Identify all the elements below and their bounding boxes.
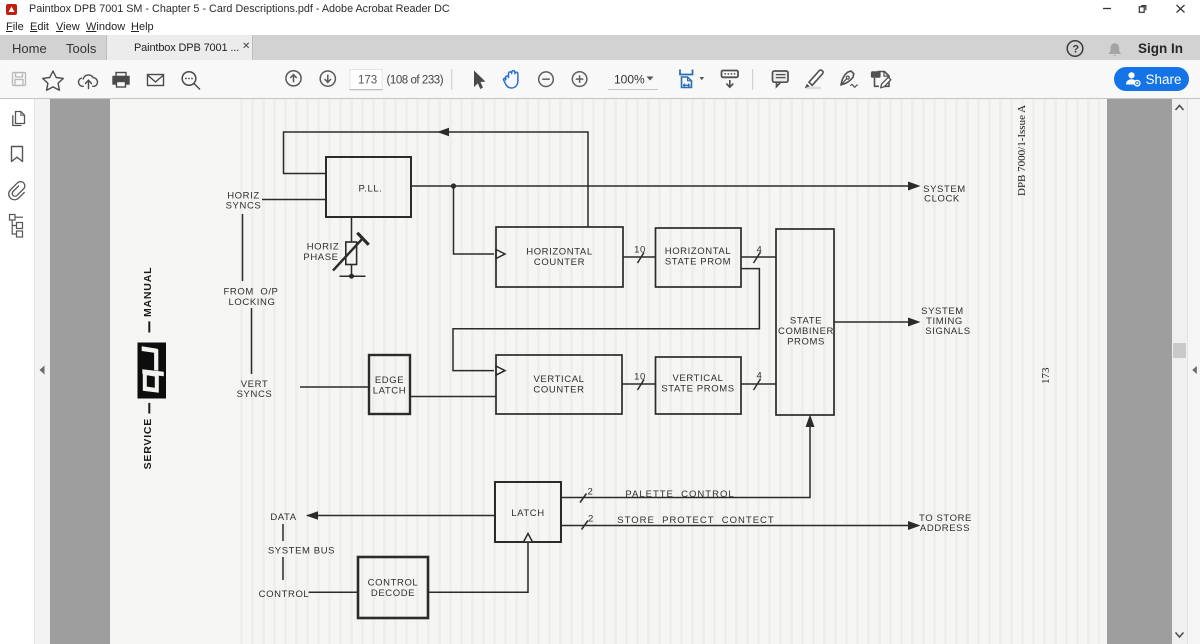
svg-text:HORIZ: HORIZ — [307, 242, 340, 253]
svg-text:STORE PROTECT CONTECT: STORE PROTECT CONTECT — [617, 515, 774, 526]
block edge latch — [369, 355, 410, 414]
wire control decode to latch clock — [428, 543, 528, 592]
block PLL U1 — [326, 157, 411, 217]
wire from-o/p-locking label to vert syncs label — [251, 308, 253, 374]
svg-text:LATCH: LATCH — [373, 386, 406, 397]
block latch — [495, 482, 561, 542]
svg-text:10: 10 — [634, 372, 646, 383]
svg-text:DECODE: DECODE — [371, 588, 415, 599]
wire edge latch to vertical counter — [410, 396, 496, 398]
stamp/page icon — [872, 72, 891, 88]
block horizontal counter — [496, 227, 623, 287]
zoom in circle — [572, 72, 587, 87]
wire system bus label tick — [282, 557, 284, 580]
svg-text:SIGNALS: SIGNALS — [925, 326, 970, 337]
svg-text:VERTICAL: VERTICAL — [672, 373, 723, 384]
help circle — [1059, 33, 1200, 60]
bookmark icon — [12, 147, 23, 162]
hand tool (blue) — [504, 71, 518, 88]
svg-text:10: 10 — [634, 245, 646, 256]
comment bubble — [773, 71, 789, 87]
svg-text:HORIZONTAL: HORIZONTAL — [665, 246, 732, 257]
wire feedback horizontal counter top to PLL — [284, 132, 589, 227]
separator — [752, 69, 754, 90]
logo quantel glyph — [142, 346, 164, 393]
svg-text:COUNTER: COUNTER — [534, 257, 585, 268]
save floppy (disabled) — [13, 73, 26, 86]
tab bar — [0, 35, 1200, 60]
cloud upload — [78, 75, 97, 89]
bus slash 4 horizontal — [754, 252, 761, 263]
block horizontal state prom — [656, 228, 742, 287]
svg-text:PROMS: PROMS — [787, 337, 825, 348]
svg-text:173: 173 — [1040, 367, 1052, 384]
svg-text:LATCH: LATCH — [511, 508, 544, 519]
svg-text:COUNTER: COUNTER — [533, 385, 584, 396]
spine tick lower — [148, 403, 150, 414]
paperclip icon — [6, 180, 28, 202]
svg-text:HORIZONTAL: HORIZONTAL — [526, 247, 593, 258]
svg-text:COMBINER: COMBINER — [778, 326, 834, 337]
wire pot bottom — [351, 265, 353, 277]
svg-text:DATA: DATA — [270, 512, 296, 523]
sidebar icons — [0, 99, 34, 644]
logo quantel block — [138, 343, 167, 399]
svg-text:CONTROL: CONTROL — [259, 589, 310, 600]
model tree icon — [10, 215, 24, 238]
select cursor — [474, 71, 486, 90]
block control decode — [358, 557, 428, 618]
bus slash 10 horizontal — [638, 253, 645, 264]
svg-text:PHASE: PHASE — [303, 252, 338, 263]
wire horizontal state prom to vertical counter clock — [453, 269, 759, 371]
wire latch store protect to store address — [561, 525, 909, 527]
pin open clock triangle latch — [524, 534, 533, 543]
wire horiz syncs label to from-o/p-locking label — [242, 214, 244, 281]
svg-text:STATE PROM: STATE PROM — [665, 257, 731, 268]
svg-text:EDGE: EDGE — [375, 375, 404, 386]
window title bar — [0, 0, 1200, 18]
svg-text:SYSTEM BUS: SYSTEM BUS — [268, 546, 335, 557]
wire PLL output to system clock — [411, 185, 909, 187]
right pane collapse arrow — [1189, 360, 1200, 380]
wire vertical counter to vertical state proms bus 10 — [622, 383, 656, 385]
block vertical counter — [496, 355, 622, 414]
node pot bottom terminal dot — [349, 274, 354, 279]
svg-text:P.LL.: P.LL. — [359, 184, 383, 195]
fill and sign pen — [841, 71, 858, 87]
wire latch palette control to state combiner — [561, 419, 810, 498]
arrowhead palette control up — [806, 415, 815, 428]
arrowhead system clock — [908, 182, 921, 191]
svg-text:MANUAL: MANUAL — [142, 267, 154, 317]
bell — [1109, 43, 1122, 54]
block vertical state proms — [656, 357, 742, 414]
svg-text:SYNCS: SYNCS — [237, 389, 273, 400]
fit width icon (blue) — [680, 70, 693, 88]
svg-text:CONTROL: CONTROL — [368, 578, 419, 589]
page number input — [350, 70, 382, 90]
bus slash 2 store protect — [582, 521, 589, 530]
svg-text:STATE: STATE — [790, 316, 822, 327]
svg-text:SERVICE: SERVICE — [142, 418, 154, 470]
wire state combiner output system timing signals — [834, 321, 909, 323]
wire vert syncs to edge latch — [300, 386, 369, 388]
highlighter — [807, 87, 822, 90]
arrowhead data pointing left — [306, 511, 318, 520]
svg-text:DPB 7000/1-Issue A: DPB 7000/1-Issue A — [1016, 105, 1028, 196]
svg-text:SYNCS: SYNCS — [226, 201, 262, 212]
search magnifier — [182, 72, 200, 90]
pdf app icon — [6, 4, 17, 15]
toolbar — [0, 60, 1200, 99]
pin open clock arrow horizontal counter — [496, 250, 505, 259]
svg-text:4: 4 — [757, 371, 763, 382]
wire data bus into latch — [307, 515, 495, 517]
arrowhead system timing signals — [908, 318, 921, 327]
star — [43, 71, 64, 90]
scrollbar chevrons — [1172, 99, 1187, 644]
wire horizontal counter to horizontal state prom bus 10 — [623, 256, 656, 258]
pot adjustment arrow diagonal — [333, 238, 364, 271]
wire junction to horizontal counter clock input — [454, 186, 495, 254]
printer — [113, 73, 129, 88]
block state combiner proms — [776, 229, 834, 415]
next page circle down arrow — [320, 71, 335, 86]
wire pot bottom crossbar — [340, 275, 366, 277]
menu bar — [0, 18, 1200, 35]
node junction on clock line — [451, 183, 456, 188]
pin open clock arrow vertical counter — [496, 366, 505, 375]
wire control to control decode — [309, 591, 359, 593]
bus slash 10 vertical row — [638, 380, 645, 391]
bus slash 4 vertical row — [754, 379, 761, 390]
svg-text:CLOCK: CLOCK — [924, 194, 960, 205]
prev page circle up arrow — [286, 71, 301, 86]
resistor horiz phase pot body — [346, 242, 357, 265]
wire data label tick — [282, 524, 284, 541]
left pane collapse arrow — [35, 360, 50, 380]
wire PLL bottom to horiz phase pot — [351, 217, 353, 242]
bus slash 2 palette — [580, 494, 587, 503]
page thumbnails icon — [13, 112, 25, 126]
envelope — [148, 75, 164, 86]
separator — [451, 69, 453, 90]
svg-text:STATE PROMS: STATE PROMS — [661, 384, 734, 395]
zoom out circle — [539, 72, 554, 87]
arrowhead to store address — [908, 521, 921, 530]
arrowhead feedback pointing left — [437, 128, 449, 137]
svg-text:2: 2 — [588, 514, 594, 525]
pot adjustment tee bar — [357, 233, 368, 245]
svg-text:PALETTE CONTROL: PALETTE CONTROL — [625, 489, 734, 500]
page scrolling icon — [722, 71, 739, 88]
svg-text:4: 4 — [757, 245, 763, 256]
window controls — [1096, 0, 1200, 18]
share button — [1114, 67, 1189, 91]
spine tick upper — [148, 321, 150, 332]
wire vertical state proms to state combiner bus 4 — [741, 383, 776, 385]
svg-text:FROM O/P: FROM O/P — [223, 287, 278, 298]
svg-text:LOCKING: LOCKING — [229, 297, 276, 308]
wire horiz syncs input — [262, 199, 326, 201]
svg-text:VERTICAL: VERTICAL — [533, 374, 584, 385]
svg-text:ADDRESS: ADDRESS — [920, 523, 970, 534]
svg-text:2: 2 — [588, 487, 594, 498]
wire horizontal state prom to state combiner bus 4 — [741, 256, 776, 258]
